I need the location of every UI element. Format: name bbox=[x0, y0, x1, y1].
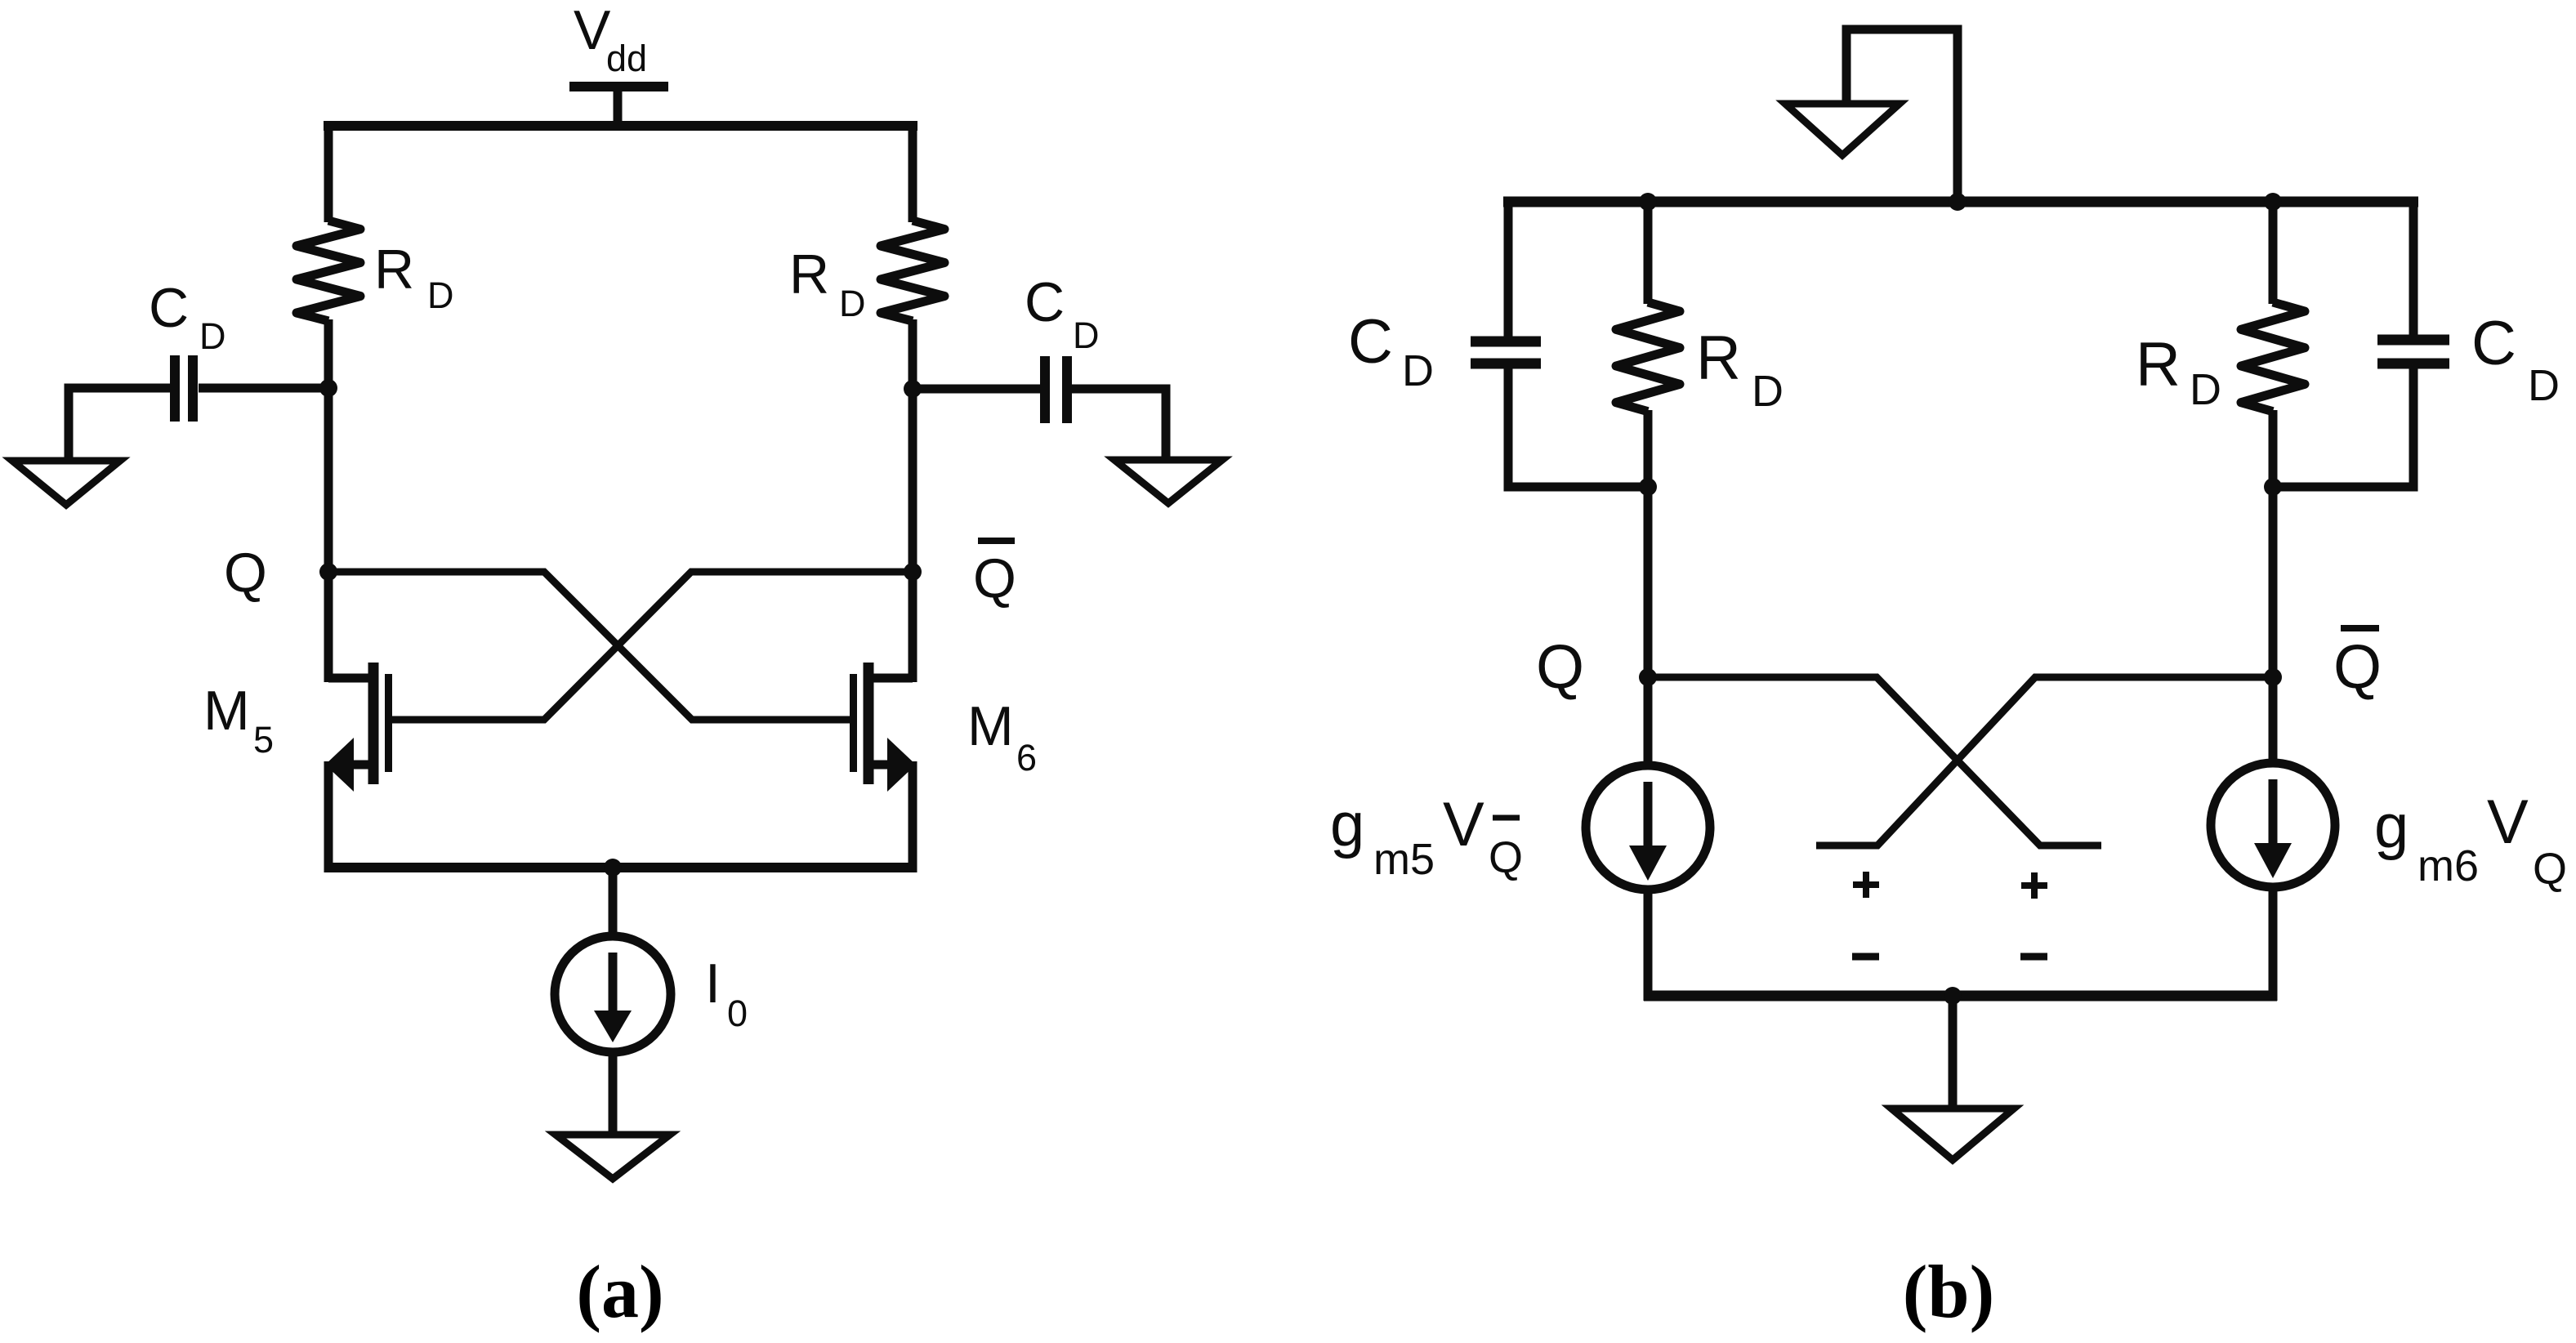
capacitor CD left (b): top lead bbox=[1504, 197, 1513, 343]
svg-text:D: D bbox=[1402, 346, 1434, 395]
node: mid junction left (b) bbox=[1639, 478, 1657, 496]
resistor RD right (b) bbox=[2241, 302, 2305, 412]
capacitor CD right (b) bbox=[2377, 340, 2449, 364]
minus sign right (b) bbox=[2020, 953, 2047, 961]
node: bottom junction (b) bbox=[1944, 987, 1962, 1005]
svg-text:M: M bbox=[203, 680, 250, 742]
power symbol Vdd bbox=[569, 87, 668, 131]
node: left drain junction (a) bbox=[319, 379, 337, 397]
ground (a-bottom) bbox=[556, 1135, 670, 1179]
label I0 bbox=[705, 953, 748, 1034]
ground (b-top) bbox=[1785, 104, 1900, 155]
wire: top rail (a) bbox=[324, 121, 917, 131]
svg-text:D: D bbox=[1752, 367, 1784, 416]
label RD right (b) bbox=[2136, 330, 2221, 414]
transistor M5 bbox=[325, 572, 389, 872]
label gm5 VQbar bbox=[1330, 790, 1523, 884]
wire: right branch upper (a) bbox=[909, 121, 917, 222]
svg-text:Q: Q bbox=[1489, 833, 1523, 882]
wire: cap lead (a-left) bbox=[199, 384, 328, 393]
label CD right (a) bbox=[1025, 271, 1100, 356]
svg-text:6: 6 bbox=[1016, 737, 1037, 779]
label Vdd bbox=[574, 0, 647, 79]
capacitor CD right (a) bbox=[1045, 356, 1067, 423]
svg-text:I: I bbox=[705, 953, 721, 1015]
wire: RD right bottom lead (b) bbox=[2269, 410, 2278, 491]
svg-text:R: R bbox=[374, 239, 414, 301]
svg-text:0: 0 bbox=[727, 993, 748, 1034]
wire: top ground hook (b) bbox=[1846, 29, 1958, 202]
wire: cross-coupling Q to gate of M6 bbox=[328, 572, 850, 720]
label M6 bbox=[967, 695, 1037, 779]
capacitor CD left (b) bbox=[1471, 341, 1541, 364]
capacitor CD right (b): top lead bbox=[2409, 197, 2418, 341]
svg-text:D: D bbox=[1073, 315, 1100, 356]
svg-text:g: g bbox=[2374, 792, 2409, 861]
node: tail junction (a) bbox=[604, 859, 622, 877]
svg-text:R: R bbox=[2136, 330, 2181, 399]
svg-text:C: C bbox=[2471, 309, 2516, 378]
wire: right branch to Qbar (b) bbox=[2269, 487, 2278, 681]
label RD right (a) bbox=[789, 243, 866, 324]
svg-text:D: D bbox=[2190, 365, 2221, 414]
capacitor CD left (a) bbox=[175, 355, 193, 422]
svg-text:m6: m6 bbox=[2418, 841, 2479, 890]
resistor RD right (a) bbox=[881, 221, 944, 321]
wire: left branch to Q (b) bbox=[1644, 487, 1653, 681]
svg-text:(a): (a) bbox=[576, 1250, 663, 1333]
wire: cross-coupling Qbar to gate of M5 bbox=[392, 572, 913, 720]
svg-text:C: C bbox=[1025, 271, 1065, 333]
label CD left (b) bbox=[1348, 307, 1434, 395]
svg-text:R: R bbox=[1696, 323, 1741, 393]
svg-text:C: C bbox=[149, 277, 189, 339]
svg-text:D: D bbox=[199, 315, 226, 357]
wire: gm6 source to bottom rail (b) bbox=[2269, 890, 2278, 1001]
wire: ground stem (b) bbox=[1949, 996, 1958, 1109]
wire: RD left top lead (b) bbox=[1644, 197, 1653, 304]
current source gm5VQbar (b) bbox=[1586, 765, 1710, 890]
svg-text:C: C bbox=[1348, 307, 1393, 377]
node: right drain junction (a) bbox=[904, 380, 922, 398]
svg-text:m5: m5 bbox=[1373, 835, 1435, 884]
minus sign left (b) bbox=[1852, 953, 1879, 961]
svg-text:g: g bbox=[1330, 790, 1364, 859]
node: top junction right (b) bbox=[2264, 193, 2282, 211]
ground (a-left) bbox=[12, 461, 120, 505]
current source gm6VQ (b) bbox=[2211, 763, 2335, 887]
svg-text:5: 5 bbox=[253, 719, 274, 761]
wire: RD left bottom lead (b) bbox=[1644, 410, 1653, 491]
svg-text:M: M bbox=[967, 695, 1014, 757]
ground (a-right) bbox=[1114, 460, 1222, 503]
node Q (b) bbox=[1639, 668, 1657, 686]
wire: cross Q to right bar (b) bbox=[1648, 677, 2101, 846]
svg-text:R: R bbox=[789, 243, 829, 306]
svg-text:Q: Q bbox=[2533, 845, 2567, 894]
label M5 bbox=[203, 680, 274, 761]
resistor RD left (a) bbox=[297, 221, 360, 321]
svg-text:D: D bbox=[839, 283, 866, 324]
wire: cap lead (a-right) bbox=[913, 385, 1041, 394]
svg-text:Q: Q bbox=[224, 542, 267, 604]
node Qbar (a) bbox=[904, 563, 922, 581]
ground (b-bottom) bbox=[1891, 1109, 2014, 1160]
node Q (a) bbox=[319, 563, 337, 581]
node Qbar (b) bbox=[2264, 668, 2282, 686]
svg-text:dd: dd bbox=[606, 38, 647, 79]
wire: bottom rail (b) bbox=[1644, 991, 2277, 1002]
node: top junction left (b) bbox=[1639, 193, 1657, 211]
wire: tail rail (a) bbox=[324, 863, 917, 872]
svg-text:V: V bbox=[2487, 788, 2529, 857]
transistor M6 bbox=[854, 572, 917, 872]
wire: top rail (b) bbox=[1503, 197, 2418, 207]
node: mid junction right (b) bbox=[2264, 478, 2282, 496]
node: top rail junction (b) bbox=[1949, 193, 1967, 211]
plus sign right (b) bbox=[2021, 872, 2047, 899]
resistor RD left (b) bbox=[1616, 302, 1680, 412]
current source gm6VQ top lead (b) bbox=[2269, 677, 2278, 763]
wire: right branch mid (a) bbox=[909, 319, 917, 576]
wire: RD right top lead (b) bbox=[2269, 197, 2278, 304]
wire: tail to current source (a) bbox=[609, 868, 618, 937]
current source gm5VQbar top lead (b) bbox=[1644, 677, 1653, 765]
svg-text:Q: Q bbox=[2333, 632, 2382, 702]
svg-text:(b): (b) bbox=[1903, 1250, 1994, 1333]
svg-text:D: D bbox=[2528, 361, 2560, 410]
wire: cross Qbar to left bar (b) bbox=[1816, 677, 2273, 846]
wire: current source to ground (a) bbox=[609, 1056, 618, 1135]
wire: cap to ground (a-right) bbox=[1071, 389, 1166, 460]
label CD right (b) bbox=[2471, 309, 2560, 410]
svg-text:V: V bbox=[1443, 790, 1484, 859]
plus sign left (b) bbox=[1853, 872, 1879, 898]
label Qbar (b) bbox=[2333, 628, 2382, 702]
wire: gm5 source to bottom rail (b) bbox=[1644, 892, 1653, 1001]
current source I0 bbox=[555, 936, 671, 1052]
svg-text:Q: Q bbox=[973, 547, 1016, 609]
svg-text:D: D bbox=[427, 274, 454, 316]
label RD left (a) bbox=[374, 239, 454, 316]
label Qbar (a) bbox=[973, 541, 1016, 609]
label gm6 VQ bbox=[2374, 788, 2567, 894]
wire: CD left bottom lead (b) bbox=[1508, 362, 1648, 487]
wire: left branch upper (a) bbox=[324, 121, 333, 222]
wire: CD right bottom lead (b) bbox=[2273, 362, 2413, 487]
wire: left branch mid (a) bbox=[324, 319, 333, 576]
label RD left (b) bbox=[1696, 323, 1784, 416]
svg-text:Q: Q bbox=[1536, 632, 1584, 702]
label CD left (a) bbox=[149, 277, 226, 357]
wire: cap to ground (a-left) bbox=[69, 388, 170, 461]
